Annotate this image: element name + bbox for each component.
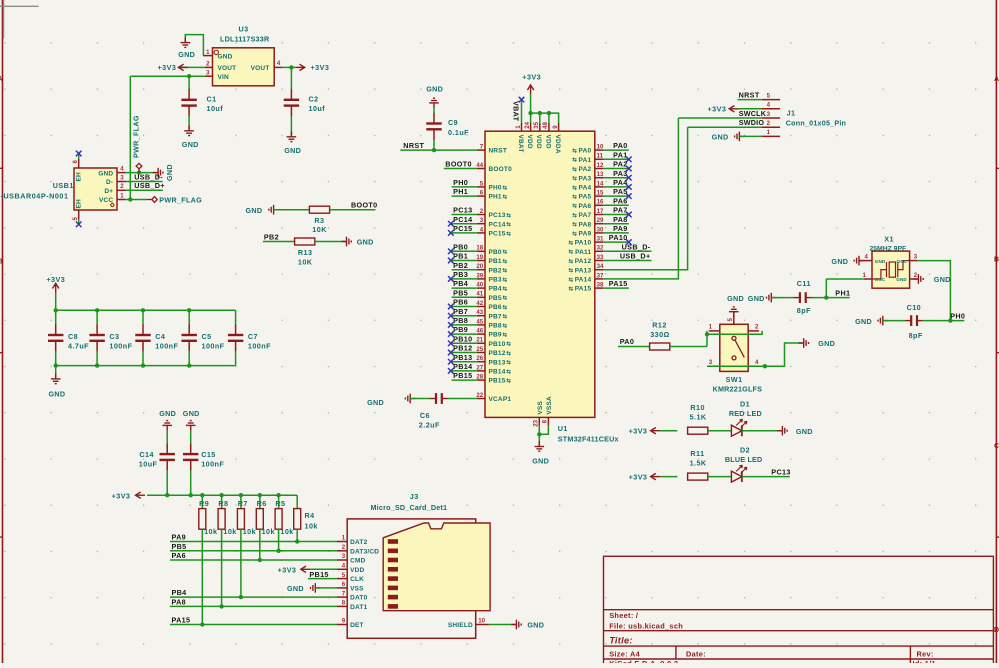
U3 pin 3 VIN (205, 75, 213, 77)
U1 pin 33 PA12 (595, 260, 603, 262)
svg-text:C6: C6 (420, 411, 430, 420)
wire PC13 stub (452, 214, 477, 216)
svg-text:USB_D-: USB_D- (134, 172, 163, 181)
svg-text:PA4: PA4 (579, 185, 592, 192)
svg-text:U3: U3 (239, 25, 249, 34)
svg-text:C4: C4 (155, 332, 165, 341)
X1 internal crystal symbol (872, 261, 910, 279)
svg-text:PB7: PB7 (453, 307, 468, 316)
no-connect flag (448, 249, 454, 255)
+3V3 power (651, 473, 661, 479)
wire R12 to SW1 (670, 346, 707, 348)
ground left of C6 (rotated) (405, 394, 415, 404)
svg-text:GND: GND (49, 389, 66, 398)
svg-text:⇆: ⇆ (506, 377, 511, 385)
resistor R9 (201, 495, 203, 508)
svg-text:10k: 10k (305, 522, 318, 531)
svg-text:VSS: VSS (537, 401, 544, 415)
wire +3V3 to R10 (660, 430, 677, 432)
svg-text:SW1: SW1 (726, 375, 743, 384)
svg-text:⇆: ⇆ (503, 193, 508, 201)
svg-text:C11: C11 (797, 279, 811, 288)
svg-text:CLK: CLK (350, 576, 364, 583)
no-connect flag (448, 258, 454, 264)
svg-text:PH1: PH1 (453, 187, 468, 196)
U1 pin 13 PA3 (595, 177, 603, 179)
svg-text:10uf: 10uf (207, 104, 224, 113)
junction (141, 363, 145, 367)
svg-text:⇆: ⇆ (503, 183, 508, 191)
LED D1 (731, 425, 742, 436)
junction (95, 308, 99, 312)
svg-text:GND: GND (357, 238, 374, 247)
U1 pin 39 PB3 (477, 278, 485, 280)
svg-text:VDD: VDD (526, 135, 533, 149)
svg-text:NRST: NRST (739, 91, 760, 100)
junction (137, 170, 141, 174)
wire C15 to +3V3 rail (190, 470, 192, 495)
svg-text:C7: C7 (248, 332, 258, 341)
U1 pin 11 PA1 (595, 158, 603, 160)
wire R11 to D2 (708, 476, 732, 478)
wire (538, 426, 540, 435)
svg-text:11: 11 (597, 153, 604, 160)
J3 card contact pads (388, 539, 398, 608)
wire PA10 stub (603, 241, 629, 243)
resistor R6 (259, 495, 261, 508)
svg-text:USB1: USB1 (53, 181, 74, 190)
wire PA1 stub (603, 158, 629, 160)
U1 pin 10 PA0 (595, 149, 603, 151)
svg-text:BOOT0: BOOT0 (489, 166, 513, 173)
ground left of C11 (rotated) (767, 293, 777, 303)
wire PB1 stub (452, 260, 477, 262)
ground left of C10 (rotated) (878, 316, 888, 326)
svg-text:10k: 10k (223, 527, 236, 536)
crystal X1 body (872, 251, 910, 288)
svg-text:⇆: ⇆ (572, 220, 577, 228)
wire NRST at J1 (738, 99, 762, 101)
resistor R7 (240, 495, 242, 508)
U1 pin 15 PA5 (595, 195, 603, 197)
U1 pin 23 VSS (538, 417, 540, 425)
svg-text:44: 44 (476, 162, 483, 169)
wire (185, 35, 203, 56)
svg-text:10k: 10k (204, 527, 217, 536)
svg-text:PA7: PA7 (579, 212, 592, 219)
J3 pin 10 SHIELD (476, 624, 489, 626)
svg-text:⇆: ⇆ (572, 147, 577, 155)
wire PA6 stub (603, 204, 629, 206)
svg-text:SWDIO: SWDIO (739, 118, 765, 127)
+3V3 power (295, 64, 305, 70)
ground right of SHIELD (rotated) (511, 620, 521, 630)
svg-text:SHIELD: SHIELD (448, 622, 473, 629)
J1 pin 3 (762, 117, 780, 119)
junction (219, 493, 223, 497)
svg-text:5: 5 (72, 217, 79, 221)
junction (187, 363, 191, 367)
wire PA3 stub (603, 177, 629, 179)
ground left of SD VSS (rotated) (311, 583, 321, 593)
X1 pin 2 (910, 278, 918, 280)
ground under C2 (287, 132, 297, 142)
capacitor C7 (235, 310, 237, 324)
svg-text:PA2: PA2 (613, 160, 628, 169)
wire GND J1 (739, 135, 761, 137)
J3 SD card shape (383, 523, 490, 611)
junction (54, 308, 58, 312)
no-connect flag (626, 175, 632, 181)
svg-text:6: 6 (72, 160, 79, 164)
svg-text:PB3: PB3 (453, 270, 468, 279)
svg-text:VDD: VDD (535, 135, 542, 149)
ground above U3 (181, 37, 191, 47)
junction (763, 364, 767, 368)
svg-text:PA9: PA9 (613, 224, 628, 233)
svg-text:File: usb.kicad_sch: File: usb.kicad_sch (609, 621, 683, 630)
U1 pin 5 PH0 (477, 186, 485, 188)
svg-text:1: 1 (515, 125, 522, 129)
svg-text:PA3: PA3 (579, 175, 592, 182)
svg-text:PB5: PB5 (453, 288, 468, 297)
svg-text:+3V3: +3V3 (522, 72, 541, 81)
svg-text:⇆: ⇆ (506, 349, 511, 357)
U1 pin 35 VDD (539, 123, 541, 131)
wire PB10 stub (452, 342, 477, 344)
svg-text:⇆: ⇆ (506, 211, 511, 219)
+3V3 power (527, 85, 533, 95)
U1 pin 8 VSSA (547, 417, 549, 425)
svg-text:PA15: PA15 (172, 616, 191, 625)
svg-text:⇆: ⇆ (569, 266, 574, 274)
+3V3 power (301, 566, 311, 572)
svg-text:R6: R6 (257, 499, 267, 508)
wire GND to C15 (190, 431, 192, 444)
svg-text:PB10: PB10 (453, 334, 472, 343)
svg-text:NRST: NRST (489, 148, 508, 155)
J1 pin 1 (762, 135, 780, 137)
svg-text:GND: GND (178, 50, 195, 59)
wire PB0 stub (452, 250, 477, 252)
svg-text:34: 34 (597, 263, 604, 270)
wire PB6 stub (452, 306, 477, 308)
svg-text:2: 2 (120, 183, 124, 190)
svg-text:GND: GND (367, 398, 384, 407)
svg-text:VBAT: VBAT (512, 101, 521, 122)
svg-text:26: 26 (476, 355, 483, 362)
svg-text:PA6: PA6 (579, 203, 592, 210)
svg-text:PB12: PB12 (489, 350, 506, 357)
ground under C1 (184, 126, 194, 136)
U1 pin 38 PA15 (595, 287, 603, 289)
svg-text:⇆: ⇆ (569, 275, 574, 283)
ground cap bank (55, 366, 57, 378)
wire (706, 334, 708, 346)
junction (219, 604, 223, 608)
wire (918, 261, 951, 321)
SW1 pin 1 (709, 330, 720, 332)
frame ticks (996, 167, 999, 169)
junction (528, 111, 532, 115)
wire D2 to PC13 (742, 476, 790, 478)
no-connect flag (626, 212, 632, 218)
wire PB8 stub (452, 324, 477, 326)
wire PC15 stub (452, 232, 477, 234)
svg-text:39: 39 (476, 272, 483, 279)
U1 pin 17 PA7 (595, 214, 603, 216)
svg-text:PB1: PB1 (489, 258, 502, 265)
svg-text:VSSA: VSSA (546, 396, 553, 415)
capacitor C4 (142, 310, 144, 324)
svg-text:⇆: ⇆ (503, 266, 508, 274)
U1 pin 32 PA11 (595, 250, 603, 252)
U1 pin 1 VBAT (521, 123, 523, 131)
wire GND to SD VSS (315, 587, 337, 589)
no-connect flag (626, 184, 632, 190)
wire GND to C10 (883, 320, 906, 322)
svg-text:10: 10 (478, 618, 485, 625)
svg-text:GND: GND (934, 275, 951, 284)
svg-text:Micro_SD_Card_Det1: Micro_SD_Card_Det1 (371, 503, 448, 512)
svg-text:PB5: PB5 (172, 542, 187, 551)
svg-text:+3V3: +3V3 (311, 63, 330, 72)
junction (239, 493, 243, 497)
junction (258, 558, 262, 562)
svg-text:BLUE LED: BLUE LED (725, 455, 763, 464)
svg-text:PH1: PH1 (835, 288, 850, 297)
resistor R11 (688, 473, 708, 480)
svg-text:16: 16 (597, 199, 604, 206)
svg-text:J1: J1 (787, 109, 796, 118)
svg-text:32: 32 (597, 245, 604, 252)
junction (276, 549, 280, 553)
svg-text:41: 41 (476, 291, 483, 298)
svg-text:13: 13 (597, 171, 604, 178)
svg-text:PA14: PA14 (575, 277, 592, 284)
svg-text:R4: R4 (305, 511, 315, 520)
wire GND to C9 (433, 108, 435, 113)
svg-text:USB_D-: USB_D- (622, 242, 651, 251)
svg-text:C5: C5 (202, 332, 212, 341)
svg-text:C2: C2 (309, 95, 319, 104)
svg-text:GND: GND (796, 427, 813, 436)
no-connect USB1 pin 5 (76, 222, 82, 228)
svg-text:⇆: ⇆ (506, 220, 511, 228)
connector USB1 body (74, 168, 117, 210)
svg-text:OSC: OSC (897, 259, 908, 264)
svg-text:OSC: OSC (875, 277, 886, 282)
U1 pin 30 PA9 (595, 232, 603, 234)
svg-text:10k: 10k (262, 527, 275, 536)
svg-text:GND: GND (287, 584, 304, 593)
svg-text:PA0: PA0 (613, 141, 628, 150)
wire SWCLK (678, 117, 761, 119)
svg-text:⇆: ⇆ (506, 340, 511, 348)
svg-text:Size: A4: Size: A4 (609, 649, 640, 658)
svg-text:PB2: PB2 (453, 261, 468, 270)
U1 pin 12 PA2 (595, 168, 603, 170)
wire (765, 343, 803, 366)
svg-text:5.1K: 5.1K (690, 413, 707, 422)
svg-text:R7: R7 (238, 499, 248, 508)
svg-text:3: 3 (120, 174, 124, 181)
svg-text:BOOT0: BOOT0 (445, 160, 472, 169)
svg-text:⇆: ⇆ (572, 156, 577, 164)
svg-text:GND: GND (831, 257, 848, 266)
svg-text:STM32F411CEUx: STM32F411CEUx (558, 434, 619, 443)
ground above C15 (flipped) (186, 421, 196, 431)
svg-text:PA15: PA15 (575, 286, 592, 293)
svg-text:PB9: PB9 (453, 325, 468, 334)
svg-text:SWCLK: SWCLK (739, 109, 767, 118)
svg-text:PB2: PB2 (264, 233, 279, 242)
power flag above USB GND wire (136, 163, 142, 172)
svg-text:21: 21 (476, 337, 483, 344)
wire U3 pin4 to +3V3 (282, 66, 295, 68)
J3 pin 2 DAT3/CD (337, 550, 347, 552)
svg-text:PA4: PA4 (613, 178, 628, 187)
svg-text:PB15: PB15 (309, 570, 328, 579)
svg-text:EH: EH (75, 199, 82, 209)
svg-text:PB8: PB8 (489, 323, 502, 330)
svg-text:10k: 10k (243, 527, 256, 536)
wire PB12 stub (452, 352, 477, 354)
svg-text:D: D (994, 627, 999, 634)
J3 pin 8 DAT1 (337, 605, 347, 607)
svg-text:Conn_01x05_Pin: Conn_01x05_Pin (786, 118, 846, 127)
svg-text:PA3: PA3 (613, 169, 628, 178)
svg-text:C8: C8 (68, 332, 78, 341)
svg-text:8pF: 8pF (797, 306, 811, 315)
svg-text:DAT0: DAT0 (350, 595, 367, 602)
wire PB7 stub (452, 315, 477, 317)
wire PA0 to R12 (618, 346, 650, 348)
svg-text:100nF: 100nF (202, 342, 225, 351)
svg-text:45: 45 (476, 318, 483, 325)
switch SW1 body (720, 324, 748, 371)
svg-text:PA6: PA6 (172, 551, 187, 560)
svg-text:1: 1 (120, 192, 124, 199)
svg-text:⇆: ⇆ (569, 248, 574, 256)
junction (295, 539, 299, 543)
junction (538, 111, 542, 115)
svg-text:R13: R13 (298, 248, 313, 257)
svg-text:R12: R12 (652, 321, 667, 330)
svg-text:1: 1 (709, 324, 713, 331)
wire (130, 75, 205, 77)
no-connect flag (448, 359, 454, 365)
capacitor C5 (188, 310, 190, 324)
svg-text:B: B (994, 257, 999, 264)
svg-text:⇆: ⇆ (572, 202, 577, 210)
resistor R5 (278, 495, 280, 508)
wire R3 to BOOT0 (330, 209, 376, 211)
svg-text:D-: D- (106, 179, 113, 186)
svg-text:GND: GND (532, 456, 549, 465)
svg-text:PA11: PA11 (575, 249, 591, 256)
U1 pin 37 PA14 (595, 278, 603, 280)
svg-text:18: 18 (476, 245, 483, 252)
svg-text:10: 10 (597, 144, 604, 151)
wire GND to C14 (166, 431, 168, 444)
J3 pin 1 DAT2 (337, 541, 347, 543)
X1 pin 4 (859, 260, 872, 262)
svg-text:PB5: PB5 (489, 295, 502, 302)
svg-text:PA6: PA6 (613, 196, 628, 205)
wire GND to C11 (771, 297, 794, 299)
svg-text:PA7: PA7 (613, 206, 628, 215)
junction (432, 148, 436, 152)
wire PA5 stub (603, 195, 629, 197)
wire +3V3 to C2 (290, 67, 292, 89)
wire PB14 stub (452, 370, 477, 372)
U1 pin 40 PB4 (477, 287, 485, 289)
svg-text:R10: R10 (690, 403, 705, 412)
svg-text:4: 4 (120, 166, 124, 173)
svg-text:Id: 1/1: Id: 1/1 (913, 659, 936, 663)
svg-text:PC14: PC14 (453, 215, 472, 224)
wire SWDIO (688, 126, 762, 128)
no-connect VBAT (519, 97, 525, 103)
svg-text:DAT1: DAT1 (350, 604, 367, 611)
svg-text:DAT2: DAT2 (350, 539, 367, 546)
junction (187, 74, 191, 78)
no-connect flag (626, 193, 632, 199)
svg-text:VDD: VDD (350, 567, 364, 574)
wire USB_D+ (126, 189, 163, 191)
U3 pin 4 VOUT right (274, 66, 282, 68)
svg-text:B: B (0, 259, 3, 266)
svg-text:37: 37 (597, 272, 604, 279)
wire PA15 stub (603, 287, 629, 289)
wire PB3 stub (452, 278, 477, 280)
svg-text:15: 15 (597, 190, 604, 197)
svg-text:C15: C15 (201, 450, 216, 459)
svg-text:38: 38 (597, 282, 604, 289)
svg-text:PH0: PH0 (489, 185, 502, 192)
svg-text:⇆: ⇆ (572, 174, 577, 182)
svg-text:A: A (994, 76, 999, 83)
wire BOOT0 stub (444, 168, 477, 170)
svg-text:PC13: PC13 (489, 212, 506, 219)
svg-text:PA5: PA5 (579, 194, 592, 201)
no-connect flag (448, 331, 454, 337)
svg-text:PH0: PH0 (453, 178, 468, 187)
no-connect flag (626, 166, 632, 172)
svg-text:PB15: PB15 (453, 371, 472, 380)
wire (531, 113, 559, 123)
SW1 pin 3 (709, 365, 720, 367)
svg-text:⇆: ⇆ (569, 285, 574, 293)
U1 pin 16 PA6 (595, 204, 603, 206)
U3 pin 1 GND (203, 55, 212, 57)
U1 pin 20 PB2 (477, 269, 485, 271)
U1 pin 2 PC13 (477, 214, 485, 216)
J3 pin 5 CLK (337, 578, 347, 580)
svg-text:100nF: 100nF (155, 342, 178, 351)
svg-text:100nF: 100nF (201, 459, 224, 468)
svg-text:3: 3 (709, 359, 713, 366)
wire C1 to GND (188, 116, 190, 129)
svg-text:10uf: 10uf (309, 104, 326, 113)
svg-text:C9: C9 (448, 118, 458, 127)
svg-text:D+: D+ (104, 188, 113, 195)
svg-text:GND: GND (218, 53, 233, 60)
wire PB15 to SD CLK (308, 578, 337, 580)
wire PH0 stub (452, 186, 477, 188)
junction (187, 308, 191, 312)
